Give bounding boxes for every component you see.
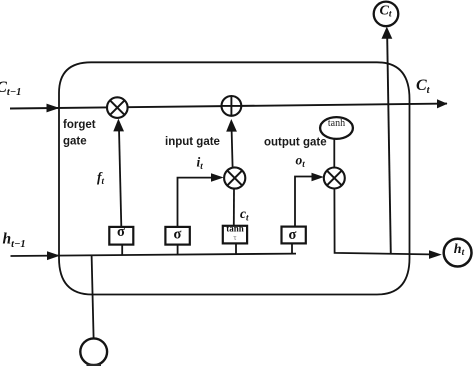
wire: tanh ellipse down to output multiply (333, 139, 335, 168)
wire: output multiply down and right to h_t (334, 189, 429, 255)
arrowhead: into cell left edge (47, 104, 60, 113)
svg-text:output gate: output gate (264, 136, 327, 148)
svg-text:σ: σ (117, 224, 125, 240)
stem box 4 (291, 243, 293, 254)
svg-text:tanh: tanh (328, 118, 345, 129)
multiply node (output gate) (324, 168, 345, 189)
wire: cell state line C_{t-1} to C_t (10, 104, 447, 109)
C_t circle (top) (374, 2, 399, 27)
cell body rounded rectangle (59, 62, 410, 294)
multiply node (input gate) (224, 167, 245, 188)
tanh box 3 (223, 224, 247, 244)
svg-text:forget: forget (63, 119, 96, 131)
svg-text:σ: σ (174, 227, 182, 243)
svg-text:tanh: tanh (226, 224, 244, 234)
arrowhead: C_t output right (437, 99, 448, 108)
stem box 3 (235, 243, 237, 254)
sigma box 1 (forget) (109, 224, 133, 245)
wire: h_{t-1} input and bottom bus (11, 254, 297, 256)
svg-text:σ: σ (289, 227, 297, 243)
sigma box 2 (input) (165, 227, 189, 245)
wire: C_t branch up to top circle (387, 38, 391, 255)
stem box 1 (121, 245, 123, 255)
h_t circle (444, 239, 472, 267)
wire: o_t elbow from sigma box 4 to output multiply (295, 177, 313, 227)
tanh ellipse (320, 117, 353, 139)
wire: input multiply up to add node (232, 130, 233, 168)
wire: branch down to bottom input circle (92, 255, 94, 338)
svg-text:gate: gate (63, 136, 87, 148)
input circle (bottom) (80, 338, 107, 365)
sigma box 4 (output) (282, 227, 306, 244)
arrowhead: h_{t-1} into cell (47, 251, 60, 260)
add node (222, 96, 242, 116)
svg-text:input gate: input gate (165, 136, 220, 148)
wire: f_t arrow from sigma box 1 up to forget multiply (119, 129, 121, 231)
stem box 2 (177, 245, 179, 255)
wire: i_t elbow from sigma box 2 to input multiply (178, 178, 213, 228)
wire: input multiply down to tanh box (233, 189, 235, 228)
multiply node (forget gate) (107, 97, 128, 118)
